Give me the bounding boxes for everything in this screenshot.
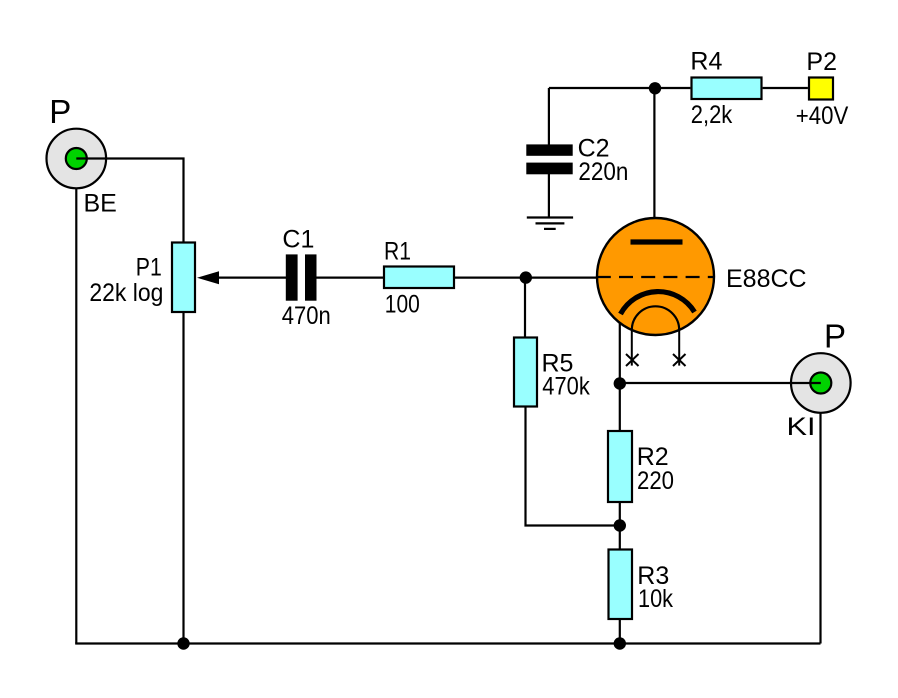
- node junction top rail: [649, 82, 661, 94]
- svg-text:470n: 470n: [282, 302, 331, 330]
- svg-text:R4: R4: [690, 48, 722, 76]
- resistor R5: [514, 338, 537, 407]
- tube heater circle: [632, 306, 679, 353]
- wire cathode lead: [619, 312, 621, 384]
- wire C1 to R1: [316, 277, 384, 279]
- node junction bottom rail R3: [614, 637, 626, 649]
- svg-text:+40V: +40V: [796, 102, 849, 130]
- tube grid (dashed): [597, 276, 714, 278]
- tube heater leg 2: [678, 329, 680, 366]
- connector P KI: [791, 353, 851, 413]
- resistor R3: [609, 550, 633, 620]
- node junction bottom rail P1: [177, 637, 189, 649]
- svg-text:P2: P2: [806, 48, 837, 76]
- tube anode plate: [631, 239, 683, 244]
- svg-text:10k: 10k: [638, 585, 673, 613]
- wire node to R5 top: [524, 278, 526, 338]
- wire P1 bottom to bottom rail: [182, 313, 184, 644]
- svg-text:P: P: [49, 93, 71, 130]
- svg-text:220: 220: [637, 467, 674, 495]
- wire cathode node to KI: [620, 382, 821, 384]
- wire top rail C2 to R4: [549, 87, 691, 89]
- potentiometer P1: [172, 243, 219, 313]
- connector P BE: [47, 129, 107, 189]
- svg-text:22k log: 22k log: [89, 279, 163, 307]
- wire P1 wiper to C1: [216, 277, 287, 279]
- node junction cathode: [614, 377, 626, 389]
- tube U1 E88CC envelope: [597, 218, 714, 335]
- tube cathode arc: [621, 292, 695, 314]
- svg-text:470k: 470k: [542, 373, 590, 401]
- svg-text:E88CC: E88CC: [726, 265, 807, 293]
- wire anode lead: [653, 88, 655, 242]
- wire BE output to P1 top: [76, 159, 183, 243]
- wire cathode node to R2 top: [619, 384, 621, 432]
- capacitor C2: [526, 144, 572, 174]
- svg-text:100: 100: [385, 291, 420, 319]
- wire BE ground lead: [75, 188, 77, 644]
- svg-text:P1: P1: [136, 254, 162, 282]
- capacitor C1: [286, 254, 317, 300]
- resistor R1: [384, 267, 454, 289]
- wire R1 to tube grid: [454, 277, 597, 279]
- svg-text:R1: R1: [384, 238, 411, 266]
- wire R5 bottom to node: [526, 407, 620, 526]
- svg-text:BE: BE: [84, 190, 117, 218]
- resistor R2: [608, 431, 632, 502]
- wire KI ground lead: [819, 412, 821, 644]
- tube heater terminator x2: [673, 354, 686, 366]
- ground: [527, 218, 573, 229]
- svg-text:C1: C1: [282, 225, 314, 253]
- wire R2 bottom to R3 top: [619, 503, 621, 550]
- svg-text:P: P: [824, 317, 846, 354]
- connector P2 +40V: [809, 78, 833, 100]
- wire bottom rail: [75, 642, 820, 644]
- svg-text:KI: KI: [787, 413, 816, 441]
- node junction grid wire: [520, 271, 532, 283]
- tube heater leg 1: [631, 329, 633, 366]
- wire R3 bottom to bottom rail: [619, 619, 621, 644]
- resistor R4: [692, 78, 762, 100]
- tube heater terminator x1: [626, 354, 639, 366]
- svg-text:220n: 220n: [578, 158, 628, 186]
- wire C2 bottom lead: [548, 173, 550, 218]
- wire C2 top lead: [548, 88, 550, 146]
- node junction R2/R3: [614, 519, 626, 531]
- wire R4 to P2: [763, 87, 808, 89]
- svg-text:2,2k: 2,2k: [691, 101, 733, 129]
